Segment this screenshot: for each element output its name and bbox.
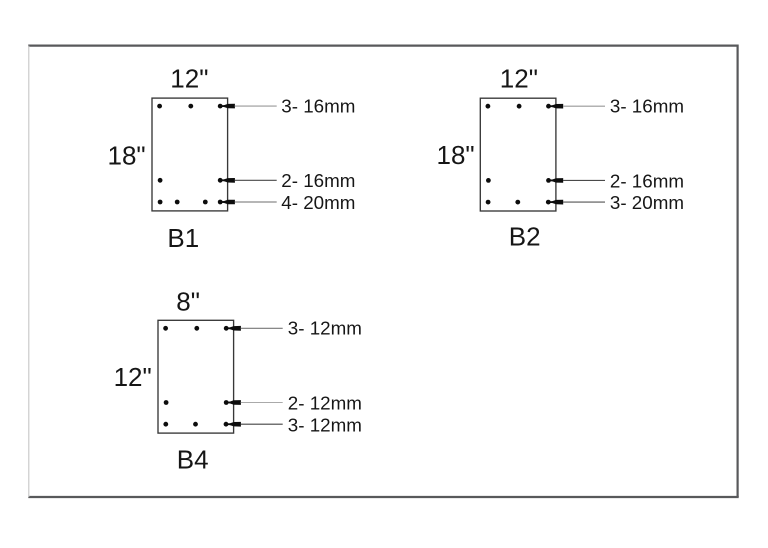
B1 leader arrow row 1 [220, 104, 277, 109]
svg-text:2- 16mm: 2- 16mm [281, 170, 355, 191]
svg-text:B1: B1 [167, 223, 199, 253]
drawing frame right edge [736, 45, 738, 498]
B4 bottom rebar row dots [163, 422, 228, 427]
B1 bottom rebar row dots [158, 200, 223, 205]
B2 leader arrow row 2 [549, 178, 606, 183]
drawing frame left edge [28, 46, 30, 497]
drawing frame top edge [28, 44, 737, 46]
svg-text:B2: B2 [509, 222, 541, 252]
B1 top rebar row dots [157, 104, 222, 109]
svg-text:B4: B4 [177, 445, 209, 475]
B1 middle rebar row dots [158, 178, 223, 183]
svg-text:2- 16mm: 2- 16mm [610, 170, 684, 191]
B4 leader arrow row 1 [226, 326, 283, 331]
B1 leader arrow row 2 [220, 178, 277, 183]
B2 middle rebar row dots [486, 178, 551, 183]
svg-text:18": 18" [108, 140, 146, 170]
B4 middle rebar row dots [164, 400, 229, 405]
svg-text:18": 18" [437, 140, 475, 170]
B4 top rebar row dots [163, 326, 228, 331]
B2 leader arrow row 1 [549, 104, 606, 109]
svg-text:12": 12" [500, 63, 538, 93]
B2 top rebar row dots [486, 104, 551, 109]
svg-text:3- 20mm: 3- 20mm [610, 192, 684, 213]
B4 leader arrow row 3 [226, 422, 283, 427]
B2 bottom rebar row dots [486, 200, 551, 205]
beam section B2 outline [480, 98, 556, 211]
svg-text:4- 20mm: 4- 20mm [281, 192, 355, 213]
B4 leader arrow row 2 [226, 400, 283, 405]
B2 leader arrow row 3 [549, 200, 606, 205]
svg-text:3- 16mm: 3- 16mm [281, 95, 355, 116]
svg-text:2- 12mm: 2- 12mm [288, 392, 362, 413]
svg-text:3- 12mm: 3- 12mm [288, 414, 362, 435]
drawing frame bottom edge [28, 496, 738, 498]
svg-text:12": 12" [170, 63, 208, 93]
svg-text:12": 12" [114, 362, 152, 392]
beam section B4 outline [158, 320, 234, 433]
svg-text:8": 8" [176, 287, 200, 317]
beam section B1 outline [152, 98, 228, 211]
svg-text:3- 12mm: 3- 12mm [288, 318, 362, 339]
B1 leader arrow row 3 [220, 200, 277, 205]
svg-text:3- 16mm: 3- 16mm [610, 95, 684, 116]
